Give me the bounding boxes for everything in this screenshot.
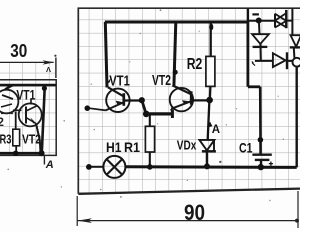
- VT1 label leader arrow: [106, 79, 111, 85]
- VT2 emitter terminal bar: [171, 110, 174, 119]
- wire: diode VD1 top: [258, 21, 261, 35]
- junction node above R1: [143, 111, 150, 118]
- transistor VT1: [106, 87, 130, 112]
- wire: node down to VDx: [208, 100, 210, 139]
- wire: fragment bottom rail: [0, 152, 43, 155]
- node A label arrow: [208, 122, 213, 128]
- wire: right descend from rail: [246, 21, 249, 87]
- wire: VT1 collector vertical: [105, 22, 107, 88]
- wire: R2 top: [210, 22, 212, 56]
- wire: R1 top: [149, 114, 151, 126]
- wire: VD1 to horizontal branch: [259, 44, 261, 61]
- wire: bowtie to corner: [286, 8, 292, 35]
- svg-text:90: 90: [184, 200, 205, 225]
- wire: VT2 base to R2 node: [192, 99, 209, 101]
- svg-text:R1: R1: [124, 139, 140, 155]
- section marker letter A (top): [46, 65, 51, 74]
- resistor R3 body: [13, 129, 20, 146]
- label R2: [187, 56, 203, 73]
- section extension line below box: [43, 155, 45, 164]
- wire: diagonal node to node: [142, 100, 146, 113]
- wire: top supply rail: [105, 21, 248, 24]
- svg-text:VT2: VT2: [152, 72, 171, 89]
- blob on R2 top wire: [209, 24, 213, 31]
- svg-text:R2: R2: [187, 56, 203, 73]
- lamp H1: [103, 156, 125, 178]
- wire: VD2 to terminal lamp: [293, 47, 296, 57]
- wire: VD3 to terminal: [287, 60, 293, 62]
- label VDx: [177, 137, 197, 152]
- partial character at cut edge: [0, 117, 4, 129]
- terminal dot (H1 left): [86, 164, 92, 170]
- svg-text:A: A: [45, 159, 54, 171]
- svg-text:A: A: [212, 124, 220, 136]
- capacitor C1: [252, 155, 273, 166]
- section marker letter A (bottom): [45, 159, 54, 171]
- minus terminal mark: [252, 13, 259, 15]
- transistor VT2 (fragment): [19, 103, 42, 126]
- resistor R1 body: [145, 126, 154, 152]
- wire: jog to C1 column: [248, 85, 260, 88]
- terminal dot (VT1 emitter): [85, 105, 91, 111]
- wire: VT2 collector stub up (fragment): [30, 99, 32, 105]
- minus node dot: [256, 18, 262, 24]
- resistor R2 body: [206, 56, 215, 86]
- wire: fragment top supply wire: [0, 84, 56, 87]
- wire: C1 to bottom rail: [260, 160, 262, 167]
- graph paper grid (main board): [78, 8, 300, 194]
- fragment box outline: [0, 80, 56, 156]
- dimension line 90: [78, 218, 300, 223]
- wire: VT1 emitter to left terminal: [89, 108, 106, 110]
- diode VDx (zener): [199, 140, 216, 151]
- label R1: [124, 139, 140, 155]
- diode VD2 (right, down, clipped): [290, 35, 301, 47]
- wire: VT2 collector vertical: [174, 22, 176, 87]
- label VT1 (fragment): [16, 87, 35, 102]
- wire: R1 bottom: [149, 152, 151, 167]
- scan speckles: [7, 9, 284, 201]
- svg-text:R3: R3: [0, 132, 12, 146]
- label R3: [0, 132, 12, 146]
- junction dot VDx bottom: [204, 163, 210, 169]
- svg-text:VT1: VT1: [16, 87, 35, 102]
- dashed base line (fragment): [1, 113, 13, 115]
- wire: vertical from frame top at right: [247, 9, 249, 22]
- graph paper grid (left fragment): [0, 63, 56, 156]
- junction dot top right (fragment): [42, 86, 47, 91]
- wire: VT1 emitter down to R3: [15, 112, 17, 130]
- dimension 90 extension right: [297, 191, 299, 228]
- svg-text:VDx: VDx: [177, 137, 197, 152]
- dimension 30 label: [10, 40, 27, 61]
- transistor VT2: [170, 85, 193, 113]
- dimension 90 extension left: [76, 196, 78, 226]
- emitter arrow into VT1 (fragment): [5, 85, 14, 89]
- tick at wire end: [252, 62, 255, 66]
- extension line at right of box: [55, 58, 57, 79]
- wire: right vertical to bottom rail: [296, 67, 298, 168]
- wire: VDx to bottom rail: [206, 151, 208, 166]
- wire: fragment right vertical wire: [42, 86, 45, 154]
- diode bowtie (anti-parallel pair): [275, 10, 286, 28]
- svg-text:VT1: VT1: [109, 73, 130, 90]
- label VT2 (fragment): [22, 132, 41, 146]
- junction dot R3 bottom: [13, 151, 18, 156]
- label C1: [239, 139, 253, 155]
- junction node at VT1 base: [139, 97, 145, 103]
- label VT2: [152, 72, 171, 89]
- wire: terminal to H1: [91, 166, 104, 168]
- dimension 90 label: [184, 200, 205, 225]
- wire: bottom rail: [125, 165, 297, 169]
- wire: rail to minus node: [248, 20, 275, 22]
- svg-text:Λ: Λ: [46, 65, 51, 74]
- label H1: [106, 139, 122, 155]
- wire: C1 column down: [259, 87, 262, 155]
- wire: cross wire to VT2 emitter: [146, 112, 172, 115]
- terminal lamp circle: [293, 58, 302, 67]
- junction blob on C1 wire: [258, 137, 264, 143]
- svg-text:30: 30: [10, 40, 27, 61]
- wire: VT1 base to node: [125, 99, 142, 101]
- label VT1: [109, 73, 130, 90]
- wire: R2 bottom to node: [209, 86, 212, 100]
- node A label: [212, 124, 220, 136]
- svg-text:H1: H1: [106, 139, 122, 155]
- svg-text:2: 2: [0, 117, 4, 129]
- junction dot bottom right (fragment): [39, 150, 45, 156]
- dimension line for 30 with right arrow: [0, 60, 55, 64]
- transistor VT1 (fragment, clipped circle): [0, 90, 18, 114]
- junction dot C1 bottom: [258, 164, 264, 170]
- base wire VT2 (fragment): [13, 109, 22, 111]
- junction node under R2: [206, 97, 213, 104]
- svg-text:C1: C1: [239, 139, 253, 155]
- diode VD3 (horizontal): [273, 52, 287, 69]
- wire: R3 bottom to bottom rail: [15, 146, 17, 153]
- wire: VT2 emitter down to bottom rail (fragment): [36, 124, 41, 153]
- wire: horizontal diode branch: [255, 60, 273, 62]
- junction dot R1 bottom: [147, 164, 153, 170]
- board outline frame: [78, 8, 300, 194]
- diode VD1 (down): [252, 34, 269, 47]
- junction blob on VT2 collector: [173, 70, 178, 75]
